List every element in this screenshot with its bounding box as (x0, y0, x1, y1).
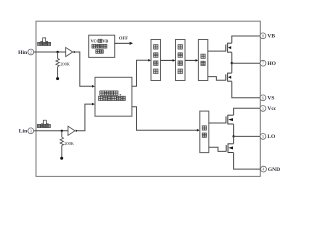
pin 5 LO (260, 134, 266, 140)
svg-text:Hin: Hin (18, 50, 28, 56)
level shift block (151, 40, 161, 81)
IC boundary box (36, 21, 260, 176)
arrow pulse-filter to driver (185, 59, 197, 61)
wire Q4 drain from LO node (233, 136, 235, 143)
label logic-input (LIN) (37, 124, 40, 127)
transistor Q2 (high-side lower MOSFET) (225, 74, 227, 80)
wire driver to Q2 gate (208, 77, 226, 81)
svg-text:2: 2 (30, 51, 32, 55)
label level-shift (154, 45, 159, 50)
node LO junction (232, 135, 234, 137)
terminal dot below R2 (60, 157, 63, 160)
resistor R1 200K pulldown (57, 52, 59, 58)
wire HO (232, 62, 260, 64)
label dead-time circuit (line 2) (99, 96, 103, 100)
label driver (high side) (201, 54, 205, 58)
buffer A1 (HIN) (66, 47, 73, 56)
wire Q2 source to VS (232, 81, 260, 97)
label logic-input (HIN) (38, 42, 41, 45)
wire Q2 drain from HO node (231, 63, 233, 73)
interlock and dead-time block (95, 77, 132, 116)
svg-text:HO: HO (267, 61, 276, 67)
svg-text:1: 1 (262, 107, 264, 111)
wire buffer A2 to interlock box (78, 104, 93, 131)
buffer A2 (LIN) (68, 126, 75, 135)
pulse filter block (176, 40, 186, 81)
transistor Q1 (high-side upper MOSFET) (225, 44, 227, 51)
wire VB rail (232, 36, 260, 43)
wire interlock to low-side driver (132, 107, 198, 131)
svg-text:200K: 200K (64, 141, 75, 146)
label interlock circuit (line 1) (100, 91, 104, 95)
svg-text:8: 8 (262, 34, 264, 38)
transistor Q4 (low-side lower MOSFET) (225, 145, 227, 152)
pin 1 VCC (260, 106, 266, 112)
wire driver to Q3 gate (209, 122, 226, 124)
svg-text:3: 3 (30, 129, 32, 133)
pin 4 GND (261, 166, 267, 172)
pin 3 LIN circle (28, 128, 34, 134)
svg-text:VCC: VCC (91, 38, 100, 43)
logic input pulse symbol (HIN) (40, 38, 48, 42)
svg-text:VB: VB (267, 34, 275, 40)
wire interlock to level-shift (132, 60, 150, 86)
label driver (low side) (202, 126, 206, 130)
wire HIN to buffer (34, 51, 66, 53)
svg-text:200K: 200K (60, 61, 71, 66)
label UV shutdown (line 2) (92, 44, 96, 48)
wire Q4 source to GND (234, 153, 261, 169)
svg-text:6: 6 (262, 96, 264, 100)
wire driver to Q1 gate (208, 50, 226, 52)
pin 8 VB (260, 33, 266, 39)
terminal dot below R1 (56, 77, 59, 80)
svg-text:OFF: OFF (119, 36, 128, 41)
OFF output arrow (115, 42, 130, 44)
wire buffer A1 to interlock box (76, 52, 93, 86)
node HIN junction (56, 51, 58, 53)
svg-text:7: 7 (262, 62, 264, 66)
pin 7 HO (260, 60, 266, 66)
wire LIN to buffer (34, 130, 68, 132)
UV lockout block (VCC/VB undervoltage shutdown) (89, 35, 115, 57)
svg-text:VS: VS (267, 96, 274, 102)
logic input pulse symbol (LIN) (41, 120, 49, 124)
wire VCC rail (234, 108, 261, 115)
pin 2 HIN circle (28, 49, 34, 55)
svg-text:LO: LO (267, 134, 276, 140)
svg-text:GND: GND (268, 167, 280, 173)
svg-text:VB: VB (102, 38, 108, 43)
label pulse-filter (178, 45, 183, 50)
transistor Q3 (low-side upper MOSFET) (225, 116, 227, 123)
wire Q1 source to HO node (231, 52, 233, 63)
wire driver to Q4 gate (209, 147, 227, 151)
pin 6 VS (260, 95, 266, 101)
label protect (line 3) (96, 50, 100, 54)
svg-text:Vcc: Vcc (267, 106, 276, 112)
arrow level-shift to pulse-filter (161, 59, 174, 61)
high-side driver block (198, 40, 207, 81)
wire LO (234, 135, 261, 137)
low-side driver block (200, 111, 209, 153)
svg-text:4: 4 (263, 168, 265, 172)
resistor R2 200K pulldown (61, 131, 63, 137)
svg-text:5: 5 (262, 135, 264, 139)
node LIN junction (61, 130, 63, 132)
node HO junction (231, 62, 233, 64)
svg-text:Lin: Lin (19, 129, 28, 135)
wire Q3 source to LO node (233, 124, 235, 136)
